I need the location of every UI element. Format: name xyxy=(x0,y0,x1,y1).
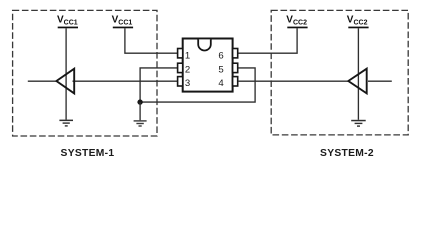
ground (buffer U3) xyxy=(351,120,366,127)
pin stub 4 xyxy=(233,77,238,86)
wire buffer U3 output stub (to system-2) xyxy=(368,80,392,82)
pin stub 1 xyxy=(178,49,183,58)
pin stub 6 xyxy=(233,49,238,58)
pin stub 3 xyxy=(178,77,183,86)
system-1 boundary box xyxy=(13,10,157,136)
svg-text:SYSTEM-2: SYSTEM-2 xyxy=(320,148,374,159)
wire buffer U1 input to pin 3 xyxy=(73,80,179,82)
svg-text:3: 3 xyxy=(185,78,190,89)
wire VCC1 to pin 1 xyxy=(125,28,178,53)
wire pin 2 to ground node A xyxy=(140,68,178,102)
IC U2 body with pin-1 notch xyxy=(183,39,233,92)
svg-text:4: 4 xyxy=(218,78,224,89)
wire VCC2 through buffer U3 to ground xyxy=(357,28,359,120)
svg-text:5: 5 xyxy=(218,64,223,75)
svg-text:SYSTEM-1: SYSTEM-1 xyxy=(61,148,115,159)
ground (buffer U1) xyxy=(59,120,73,127)
supply VCC2 (buffer U3) xyxy=(347,15,369,29)
svg-text:6: 6 xyxy=(218,51,223,62)
supply VCC2 (pin 6) xyxy=(286,15,307,29)
wire pin 4 to buffer U3 input tip xyxy=(238,80,349,82)
buffer U1 (SYSTEM-1, points left) xyxy=(56,69,74,94)
pin stub 2 xyxy=(178,63,183,72)
ground (node A) xyxy=(134,102,147,127)
wire buffer U1 output stub xyxy=(28,80,57,82)
buffer U3 (SYSTEM-2, points left) xyxy=(348,69,366,94)
svg-text:2: 2 xyxy=(185,64,190,75)
supply VCC1 (pin 1) xyxy=(112,15,134,29)
node A junction dot xyxy=(137,99,142,104)
supply VCC1 (buffer U1) xyxy=(57,15,78,29)
system-2 boundary box xyxy=(271,10,408,134)
wire pin 6 to VCC2 xyxy=(238,28,297,53)
wire VCC1 through buffer U1 to ground xyxy=(65,28,67,119)
wire pin 5 to ground node A (routed under IC) xyxy=(140,68,255,102)
pin stub 5 xyxy=(233,63,238,72)
svg-text:1: 1 xyxy=(185,51,190,62)
